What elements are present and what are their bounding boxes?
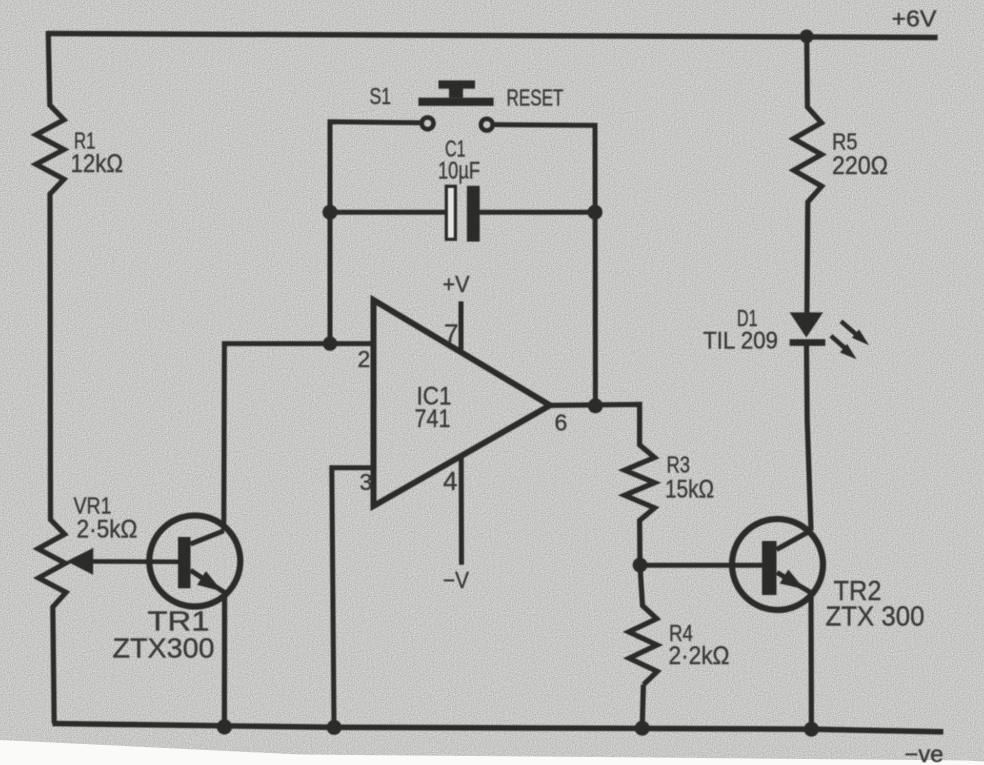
svg-text:741: 741 — [415, 405, 451, 433]
svg-text:+V: +V — [443, 271, 471, 297]
svg-text:−ve: −ve — [905, 741, 944, 765]
svg-text:TIL 209: TIL 209 — [703, 328, 778, 355]
svg-text:2·2kΩ: 2·2kΩ — [669, 642, 730, 670]
svg-text:15kΩ: 15kΩ — [665, 476, 714, 504]
svg-text:R5: R5 — [832, 129, 858, 155]
svg-text:ZTX300: ZTX300 — [113, 633, 215, 664]
svg-text:RESET: RESET — [507, 85, 564, 111]
svg-text:R3: R3 — [667, 452, 691, 478]
svg-text:12kΩ: 12kΩ — [71, 150, 124, 178]
svg-text:ZTX 300: ZTX 300 — [826, 601, 925, 632]
svg-text:220Ω: 220Ω — [832, 152, 888, 180]
svg-text:+6V: +6V — [892, 6, 938, 32]
svg-text:2: 2 — [358, 346, 371, 372]
svg-text:7: 7 — [444, 319, 458, 349]
svg-text:3: 3 — [360, 469, 373, 495]
svg-text:10µF: 10µF — [438, 158, 480, 185]
svg-text:6: 6 — [555, 410, 568, 436]
svg-text:4: 4 — [443, 466, 457, 496]
svg-text:−V: −V — [443, 567, 470, 593]
svg-text:S1: S1 — [370, 83, 392, 109]
svg-text:2·5kΩ: 2·5kΩ — [77, 516, 138, 544]
